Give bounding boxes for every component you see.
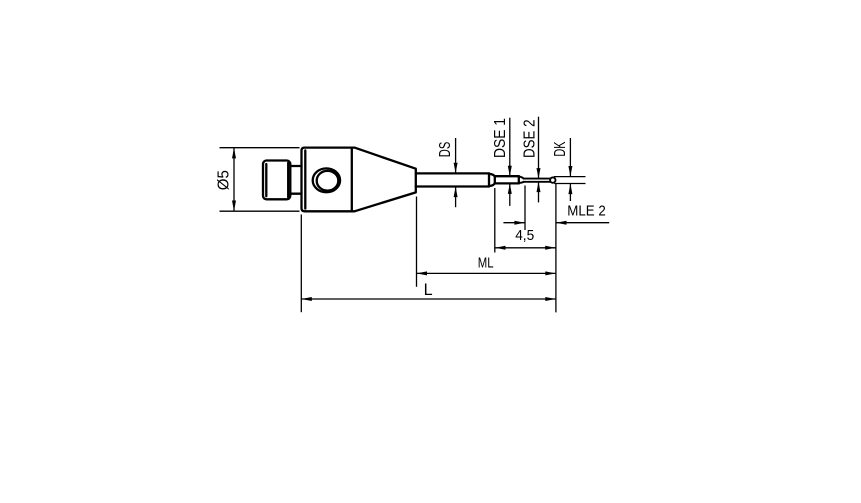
L arrow right	[545, 297, 556, 301]
DSE1 bottom line	[495, 182, 519, 184]
extension line DSE1 start	[494, 188, 496, 253]
ML arrow left	[417, 271, 428, 275]
4,5 arrow right	[545, 246, 556, 250]
stem top line	[416, 172, 489, 174]
body left chamfer line	[304, 150, 306, 208]
DSE1 upper dimension line	[509, 118, 511, 176]
svg-text:L: L	[424, 281, 433, 299]
L arrow left	[301, 297, 312, 301]
DSE1 lower dimension line	[509, 184, 511, 206]
DSE1 end vertical	[518, 176, 520, 183]
DK bottom extension line	[554, 183, 585, 185]
O5 arrow down	[232, 201, 236, 212]
labels	[215, 118, 605, 299]
stem end vertical	[488, 173, 490, 186]
MLE2 dimension line left part	[503, 222, 525, 224]
L dimension line	[301, 298, 556, 300]
svg-text:DK: DK	[552, 141, 569, 156]
dimension graphics	[220, 117, 610, 313]
MLE2 dimension line right part	[556, 222, 609, 224]
DSE2 top line	[524, 178, 551, 180]
thread knob	[263, 161, 290, 200]
4,5 dimension line	[495, 247, 556, 249]
O5 dimension line	[233, 148, 235, 211]
DSE1 arrow up	[508, 183, 512, 194]
stem-DSE1 shoulder top	[489, 174, 495, 176]
body/cone boundary line	[351, 148, 353, 212]
DS lower dimension line	[455, 187, 457, 208]
DK arrow down	[568, 166, 572, 177]
DSE2 arrow up	[537, 182, 541, 193]
DS arrow up	[454, 187, 458, 198]
svg-text:4,5: 4,5	[515, 227, 534, 244]
svg-text:DSE 1: DSE 1	[492, 118, 509, 158]
collar bottom	[290, 193, 301, 195]
ball tip	[550, 177, 555, 182]
DSE1-DSE2 shoulder bottom	[519, 182, 524, 183]
DK arrow up	[568, 184, 572, 195]
collar top	[290, 165, 301, 167]
DSE2 upper dimension line	[538, 117, 540, 179]
O5 bottom extension line	[220, 210, 300, 212]
stylus body outlines	[263, 148, 556, 212]
DSE2 lower dimension line	[538, 182, 540, 203]
DK upper dimension line	[569, 138, 571, 176]
svg-text:Ø5: Ø5	[215, 170, 232, 190]
extension line body left	[300, 215, 302, 313]
knob left chamfer line	[265, 164, 267, 196]
stem bottom line	[416, 185, 489, 187]
hole inner ring	[317, 171, 339, 191]
svg-text:DSE 2: DSE 2	[522, 119, 539, 158]
DSE1 top line	[495, 175, 519, 177]
DSE2 bottom line	[524, 181, 551, 183]
main body + cone outline	[302, 148, 416, 212]
DS upper dimension line	[455, 138, 457, 173]
svg-text:MLE 2: MLE 2	[567, 203, 606, 220]
svg-text:ML: ML	[478, 255, 494, 272]
hole outer ring	[313, 168, 340, 192]
svg-text:DS: DS	[437, 142, 454, 158]
MLE2 arrow right	[514, 221, 525, 225]
extension line ball tip	[555, 184, 557, 313]
O5 arrow up	[232, 148, 236, 159]
O5 top extension line	[220, 147, 300, 149]
DK top extension line	[554, 176, 586, 178]
DSE1 arrow down	[508, 166, 512, 177]
ML arrow right	[545, 271, 556, 275]
DSE1 start vertical	[494, 176, 496, 183]
stem-DSE1 shoulder bottom	[489, 183, 495, 186]
MLE2 arrow left	[556, 221, 567, 225]
extension line DSE2 start	[524, 186, 526, 231]
DS arrow down	[454, 163, 458, 174]
ML dimension line	[417, 272, 556, 274]
DSE1-DSE2 shoulder top	[519, 177, 524, 179]
4,5 arrow left	[495, 246, 506, 250]
DK lower dimension line	[569, 184, 571, 201]
knob right chamfer line	[287, 163, 289, 198]
arrowheads	[232, 148, 572, 301]
DSE2 arrow down	[537, 168, 541, 179]
extension line cone tip	[416, 197, 418, 287]
